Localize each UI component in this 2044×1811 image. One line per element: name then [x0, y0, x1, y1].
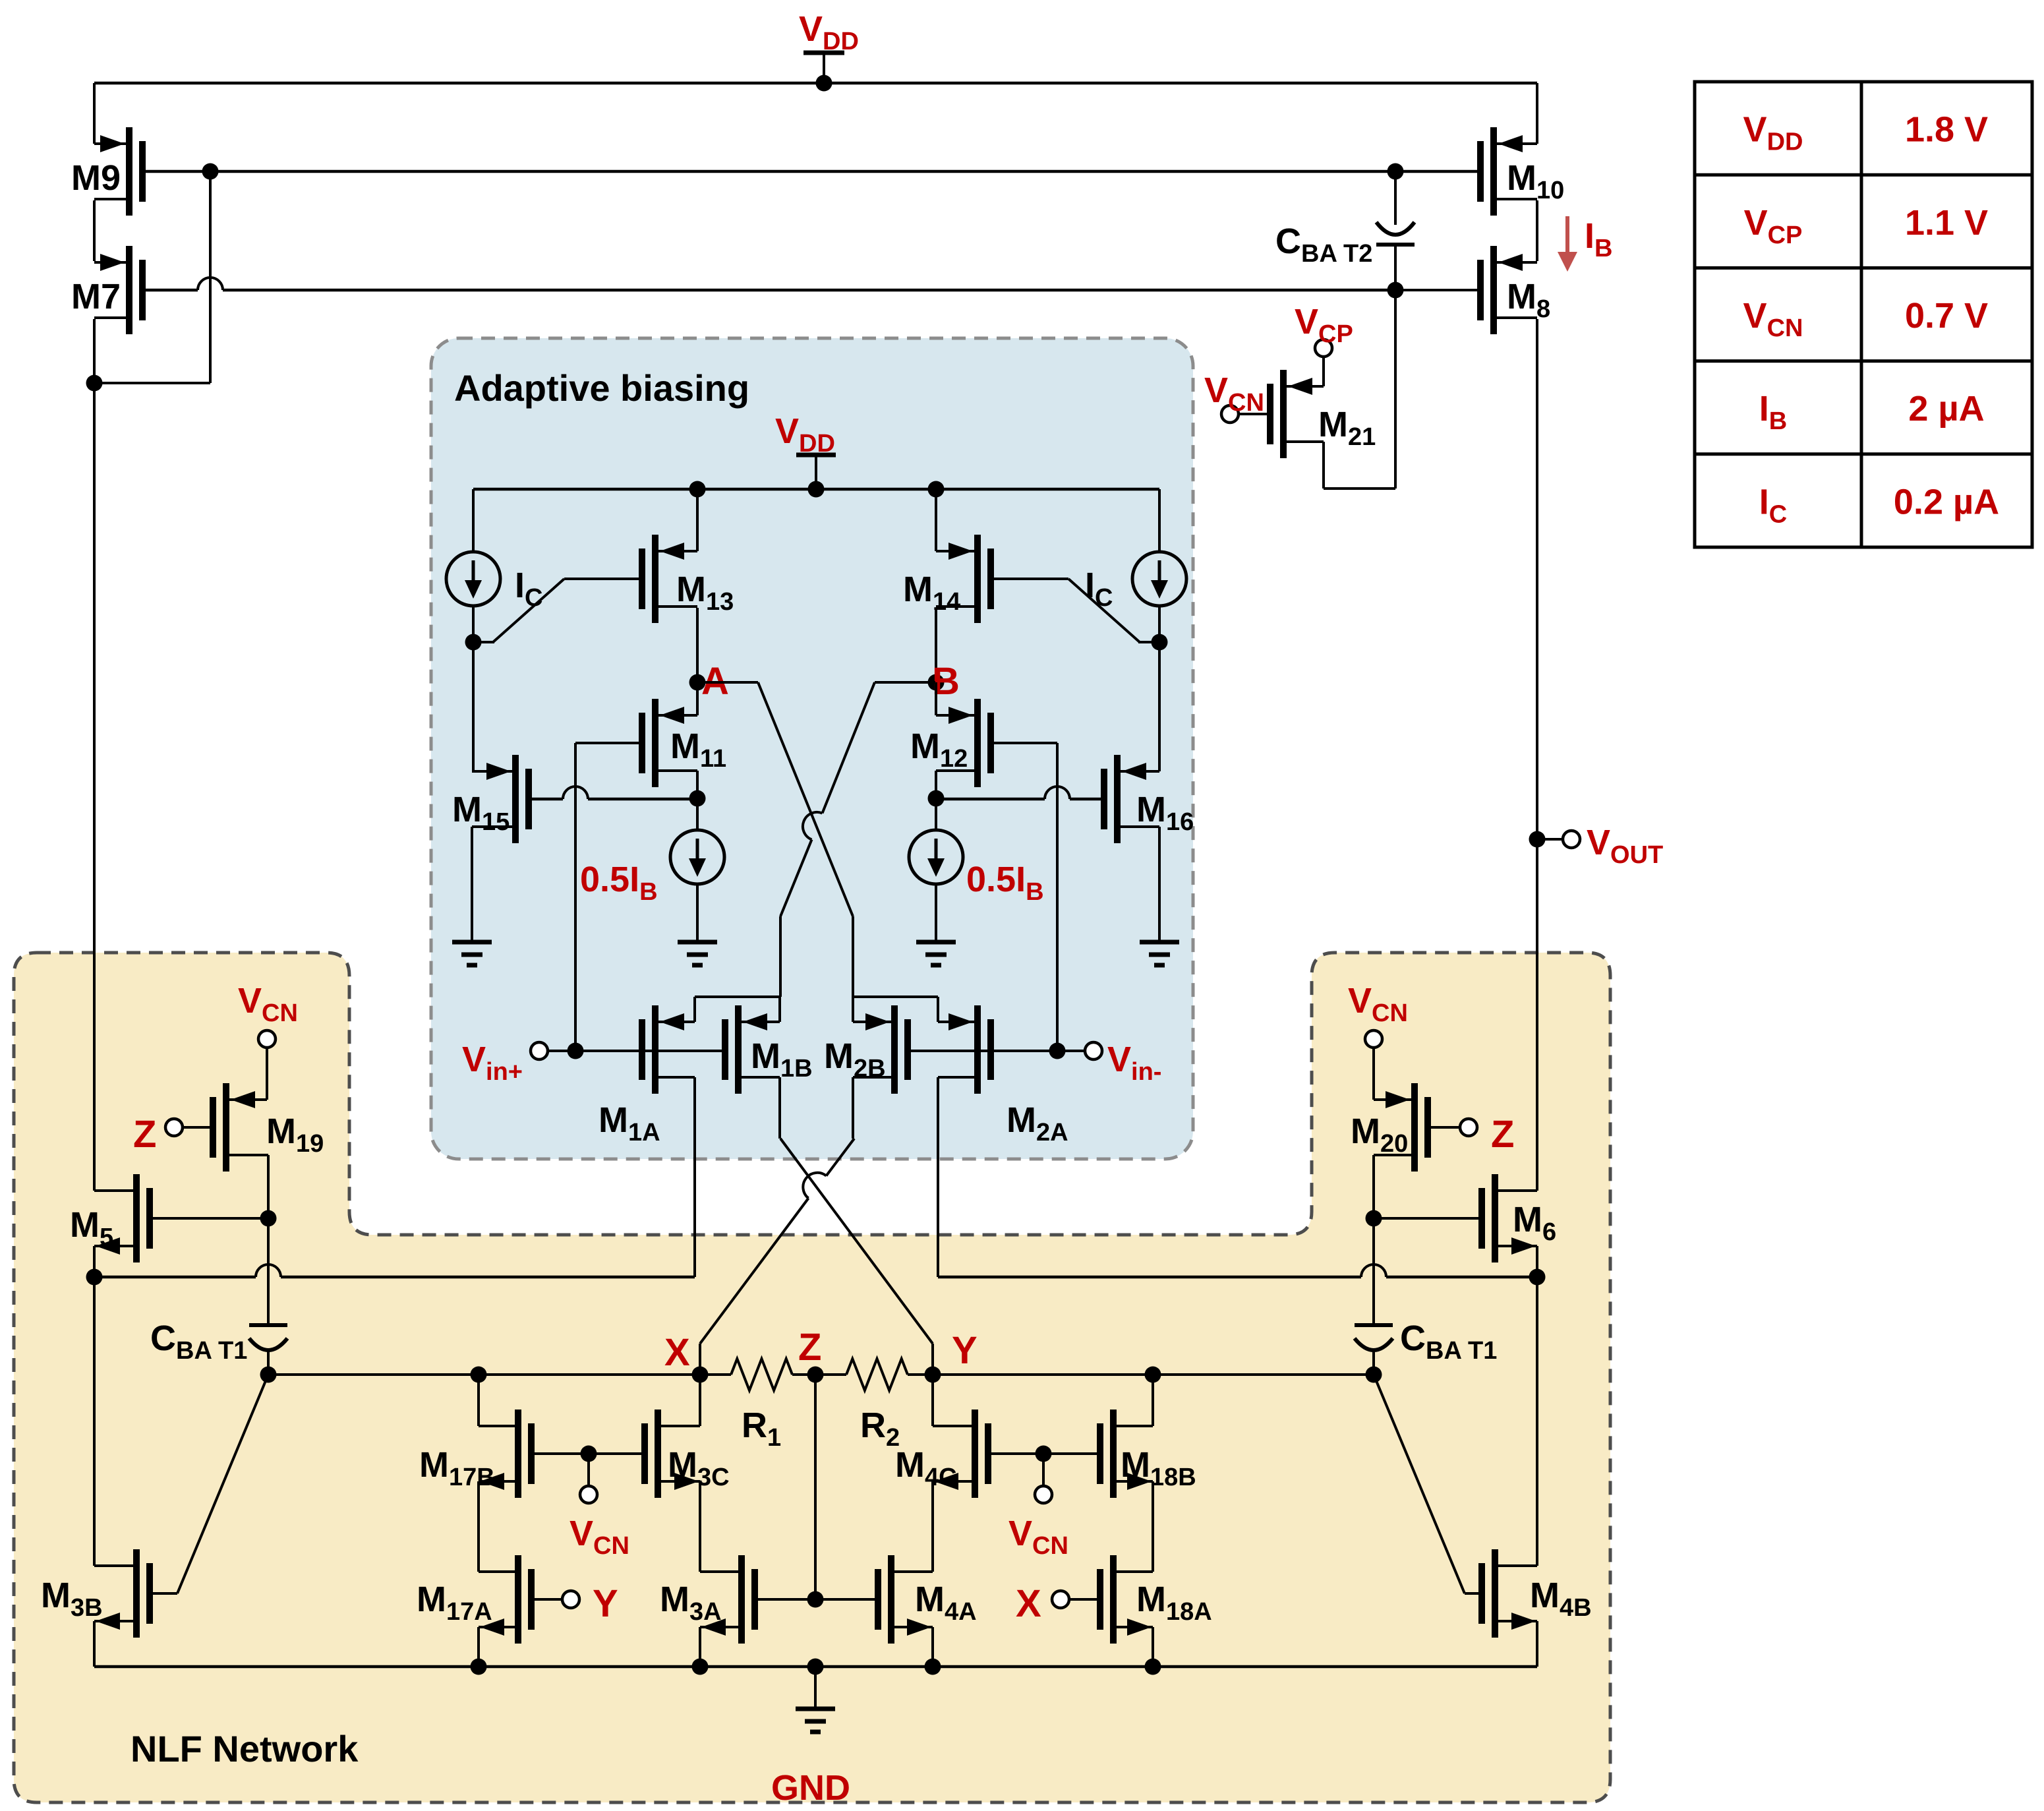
wire cross diagonal to Y: [780, 1139, 933, 1375]
wire M5 gate to node: [149, 1217, 268, 1220]
label M7: [71, 277, 121, 316]
wire M7 drain node: [86, 171, 211, 392]
wire M5 source down: [86, 1246, 103, 1286]
wire M18A source to rail: [1152, 1627, 1154, 1667]
wire M16 gate to M12 source with hop: [936, 787, 1104, 799]
wire M13 gate to IC left: [473, 579, 643, 642]
wire M6 source down: [1529, 1246, 1546, 1286]
transistor M9: [94, 127, 142, 216]
transistor M2A: [938, 1005, 991, 1094]
transistor M3A: [700, 1555, 755, 1644]
transistor M8: [1480, 246, 1537, 334]
label R2: [860, 1406, 900, 1452]
terminal VCN mid right: [1035, 1486, 1052, 1503]
terminal Z right: [1460, 1119, 1477, 1136]
table of parameters: [1695, 82, 2032, 547]
transistor M21: [1270, 370, 1324, 458]
terminal Vin-: [1085, 1042, 1102, 1059]
svg-text:0.7 V: 0.7 V: [1905, 296, 1988, 336]
wire VCN right stem: [1372, 1048, 1375, 1100]
label CBAT1 right: [1400, 1319, 1497, 1365]
label M4C: [895, 1445, 957, 1491]
wire M10 drain to M8 source: [1536, 200, 1538, 261]
label M19: [266, 1112, 324, 1158]
label VDD inner: [775, 411, 835, 458]
transistor M1B: [725, 1005, 780, 1094]
ground under 0.5IB left: [678, 942, 717, 965]
transistor M2B: [853, 1005, 908, 1094]
NLF Network box: [14, 953, 1610, 1802]
terminal X mid: [1052, 1591, 1069, 1608]
wire Z lead M20: [1427, 1126, 1460, 1129]
terminal Z left: [165, 1119, 183, 1136]
label node A: [701, 660, 729, 703]
wire M8 drain down right bus: [1529, 319, 1546, 1191]
transistor M4A: [878, 1555, 933, 1644]
label M17A: [417, 1580, 492, 1626]
wire M1B drain down: [778, 1077, 781, 1139]
wire M7 gate line row with hop: [141, 278, 1480, 299]
label node Z: [798, 1326, 821, 1369]
label M2B: [824, 1036, 886, 1083]
wire left bus M5 to M3B: [93, 1277, 96, 1566]
wire M3A source to rail: [699, 1627, 701, 1667]
wire M15 gate to M11 source with hop: [529, 787, 697, 799]
wire IC left to node: [465, 606, 482, 771]
svg-text:M7: M7: [71, 277, 121, 316]
label R1: [742, 1406, 781, 1452]
svg-text:Z: Z: [133, 1113, 156, 1156]
label M3B: [41, 1576, 103, 1622]
wire M3B source to rail: [93, 1621, 96, 1667]
svg-text:M8: M8: [1507, 277, 1550, 323]
svg-text:GND: GND: [771, 1768, 850, 1808]
wire Z lead M19: [183, 1126, 214, 1129]
wire M17B to M17A: [477, 1481, 480, 1572]
wire node A to M11: [696, 682, 699, 715]
label IB: [1585, 216, 1612, 262]
wire M4B source to rail: [1536, 1621, 1538, 1667]
wire M6 gate to node: [1374, 1217, 1482, 1220]
resistor R2: [846, 1359, 908, 1390]
label VCN mid left: [569, 1514, 629, 1560]
ground under 0.5IB right: [916, 942, 956, 965]
ground under M16: [1140, 942, 1179, 965]
transistor M3B: [94, 1549, 150, 1638]
wire IC right to node: [1152, 606, 1168, 771]
transistor M10: [1480, 127, 1537, 216]
terminal VCN right: [1365, 1030, 1382, 1048]
label M21: [1318, 405, 1376, 451]
label node B: [932, 660, 960, 703]
wire Vin- to gates: [908, 1043, 1085, 1059]
transistor M7: [94, 246, 142, 334]
svg-text:M9: M9: [71, 158, 121, 198]
wire M13 source to rail: [696, 489, 699, 551]
svg-text:Y: Y: [593, 1582, 618, 1625]
wire M19 drain down: [260, 1155, 277, 1227]
label M16: [1136, 790, 1194, 836]
capacitor CBAT1 right: [1355, 1325, 1393, 1375]
ground main: [796, 1667, 835, 1732]
wire VCN lead M21: [1239, 413, 1270, 415]
svg-text:NLF Network: NLF Network: [131, 1728, 359, 1769]
label M14: [903, 570, 960, 616]
transistor M14: [936, 535, 991, 623]
wire bottom rail: [94, 1659, 1537, 1675]
transistor M13: [642, 535, 697, 623]
svg-text:0.2 µA: 0.2 µA: [1894, 482, 1999, 521]
terminal VOUT: [1563, 831, 1580, 848]
current source 0.5IB left: [670, 830, 724, 884]
label X mid: [1016, 1582, 1041, 1625]
label 0.5IB left: [580, 860, 658, 906]
label CBAT1 left: [150, 1319, 247, 1365]
wire M3B gate diagonal: [150, 1375, 268, 1593]
wire M14 drain to node B: [928, 608, 945, 691]
wire M15 source to ground: [471, 827, 473, 942]
transistor M18A: [1100, 1555, 1153, 1644]
wire M9 gate line row: [141, 163, 1480, 180]
wire node X Z Y line: [260, 1367, 1382, 1383]
label M1B: [751, 1036, 813, 1083]
label M1A: [599, 1100, 660, 1146]
wire M2B drain down: [852, 1077, 854, 1139]
label Vin-: [1107, 1040, 1161, 1086]
label VDD top: [799, 9, 859, 55]
label M18B: [1121, 1445, 1196, 1491]
svg-text:VCN: VCN: [1204, 371, 1264, 417]
wire M5 node to M1A drain with hop: [94, 1264, 695, 1277]
gate lead M10: [1395, 170, 1480, 173]
wire node down to CBAT1 left: [267, 1218, 270, 1326]
terminal VCN mid left: [580, 1486, 597, 1503]
wire 0.5IB right to ground: [935, 884, 937, 942]
label M18A: [1136, 1580, 1212, 1626]
wire VOUT tap: [1537, 838, 1563, 841]
label node Y: [952, 1329, 978, 1372]
label NLF Network heading: [131, 1728, 359, 1769]
label VCN right: [1348, 981, 1408, 1027]
Adaptive biasing box: [431, 338, 1193, 1159]
current source IC right: [1132, 552, 1186, 606]
wire M9 drain to M7 source: [93, 200, 96, 261]
label Z right: [1491, 1113, 1514, 1156]
capacitor CBAT2: [1376, 171, 1415, 290]
svg-text:M21: M21: [1318, 405, 1376, 451]
svg-text:IB: IB: [1585, 216, 1612, 262]
label M8: [1507, 277, 1550, 323]
svg-text:1.1 V: 1.1 V: [1905, 203, 1988, 243]
label VCP: [1295, 302, 1353, 348]
wire M20 drain down: [1366, 1155, 1382, 1227]
svg-text:M10: M10: [1507, 158, 1564, 204]
label M12: [910, 727, 968, 773]
wire M14 gate to IC right: [990, 579, 1159, 642]
wire X lead M18A: [1069, 1598, 1100, 1601]
wire M2A drain to M6 node with hop: [938, 1264, 1537, 1277]
wire M21 drain to cap node: [1324, 290, 1395, 489]
label IC left: [515, 566, 542, 612]
terminal Y mid: [562, 1591, 579, 1608]
label M13: [676, 570, 734, 616]
svg-text:2 µA: 2 µA: [1908, 389, 1984, 429]
label M4A: [915, 1580, 977, 1626]
wire M4A source to rail: [931, 1627, 934, 1667]
wire M4B gate diagonal: [1374, 1375, 1481, 1593]
wire M12 source node: [928, 771, 945, 830]
transistor M17B: [479, 1410, 531, 1498]
label M17B: [419, 1445, 495, 1491]
transistor M5: [94, 1174, 150, 1262]
label Y mid: [593, 1582, 618, 1625]
label GND: [771, 1768, 850, 1808]
transistor M16: [1104, 755, 1159, 843]
label VCN M21: [1204, 371, 1264, 417]
transistor M3C: [645, 1410, 700, 1498]
wire M11 source node: [689, 771, 706, 830]
capacitor CBAT1 left: [249, 1325, 287, 1375]
transistor M15: [472, 755, 529, 843]
wire input pair right source rail: [853, 997, 938, 1022]
wire right bus M6 to M4B: [1536, 1277, 1538, 1566]
wire M16 source to ground: [1158, 827, 1161, 942]
current source 0.5IB right: [909, 830, 963, 884]
wire rail to IC right: [1158, 489, 1161, 552]
label M11: [670, 727, 726, 773]
transistor M20: [1374, 1083, 1428, 1172]
svg-text:CBA T2: CBA T2: [1275, 222, 1372, 268]
svg-text:X: X: [664, 1331, 690, 1374]
wire Y node down to M4C: [931, 1375, 934, 1426]
transistor M19: [213, 1083, 268, 1172]
wire M4C to M4A: [931, 1481, 934, 1572]
label M6: [1513, 1200, 1556, 1246]
label VCN left: [238, 981, 298, 1027]
wire VCN gate link left: [531, 1446, 645, 1487]
label IC right: [1085, 566, 1113, 612]
svg-text:X: X: [1016, 1582, 1041, 1625]
wire VDD top rail: [94, 75, 1537, 92]
wire M2A drain down: [937, 1077, 939, 1277]
label M15: [452, 790, 510, 836]
ground under M15: [452, 942, 492, 965]
wire input pair left source rail: [695, 997, 780, 1022]
wire node A cross diagonal: [697, 682, 853, 997]
wire M18B to M18A: [1152, 1481, 1154, 1572]
label M2A: [1007, 1100, 1068, 1146]
wire M14 source to rail: [935, 489, 937, 551]
wire X node down to M3C: [699, 1375, 701, 1426]
wire Vin+ to gates: [548, 1043, 724, 1059]
terminal Vin+: [531, 1042, 548, 1059]
label M3C: [668, 1445, 730, 1491]
resistor R1: [731, 1359, 792, 1390]
label 0.5IB right: [966, 860, 1044, 906]
wire node down to CBAT1 right: [1372, 1218, 1375, 1326]
terminal VCN M21: [1221, 405, 1239, 423]
wire VCP to M21 source: [1322, 357, 1325, 386]
transistor M6: [1482, 1174, 1537, 1262]
transistor M4B: [1482, 1549, 1537, 1638]
label M10: [1507, 158, 1564, 204]
label M3A: [660, 1580, 722, 1626]
wire cross diagonal to X with hop: [700, 1139, 854, 1375]
label Adaptive biasing heading: [454, 367, 749, 409]
gate lead M8: [1395, 289, 1480, 291]
label Vin+: [462, 1040, 523, 1086]
wire rail to IC left: [472, 489, 475, 552]
svg-text:Y: Y: [952, 1329, 978, 1372]
label VOUT: [1587, 823, 1663, 869]
svg-text:1.8 V: 1.8 V: [1905, 110, 1988, 150]
wire M9 source from rail: [93, 83, 96, 144]
transistor M18B: [1100, 1410, 1153, 1498]
svg-text:Z: Z: [798, 1326, 821, 1369]
wire Y lead M17A: [531, 1598, 562, 1601]
wire Vin+ up to M11 gate: [575, 743, 641, 1051]
label CBAT2: [1275, 222, 1372, 268]
transistor M1A: [642, 1005, 695, 1094]
wire M3C to M3A: [699, 1481, 701, 1572]
wire inner VDD rail: [473, 481, 1159, 498]
wire VCN gate link right: [987, 1446, 1100, 1487]
wire M10 source from rail: [1536, 83, 1538, 144]
svg-text:Z: Z: [1491, 1113, 1514, 1156]
wire Vin- up to M12 gate: [992, 743, 1057, 1051]
wire M3A M4A gate link: [754, 1591, 877, 1608]
transistor M11: [642, 699, 697, 787]
wire left bus down to M5: [93, 383, 96, 1191]
svg-text:VOUT: VOUT: [1587, 823, 1663, 869]
power VDD inner symbol: [796, 455, 836, 489]
svg-text:Adaptive biasing: Adaptive biasing: [454, 367, 749, 409]
wire VCN left stem: [266, 1048, 268, 1100]
transistor M17A: [479, 1555, 531, 1644]
label M9: [71, 158, 121, 198]
label VCN mid right: [1008, 1514, 1068, 1560]
label M5: [70, 1205, 113, 1251]
current source IC left: [446, 552, 500, 606]
transistor M12: [936, 699, 991, 787]
wire M17A source to rail: [477, 1627, 480, 1667]
wire M17 column from line: [477, 1375, 480, 1426]
wire M18 column from line: [1152, 1375, 1154, 1426]
wire M1A drain down: [693, 1077, 696, 1277]
label node X: [664, 1331, 690, 1374]
terminal VCP: [1315, 340, 1332, 357]
wire Z node down: [814, 1375, 817, 1599]
label M20: [1351, 1112, 1408, 1158]
terminal VCN left: [258, 1030, 276, 1048]
wire node B cross diagonal with hop: [780, 682, 935, 997]
wire 0.5IB left to ground: [696, 884, 699, 942]
transistor M4C: [933, 1410, 988, 1498]
power VDD supply symbol: [803, 53, 844, 83]
label Z left: [133, 1113, 156, 1156]
wire M13 drain to node A: [689, 608, 706, 691]
svg-text:VCP: VCP: [1295, 302, 1353, 348]
current IB arrow: [1558, 216, 1577, 272]
wire node B to M12: [935, 682, 937, 715]
label M4B: [1530, 1576, 1592, 1622]
svg-text:VDD: VDD: [799, 9, 859, 55]
